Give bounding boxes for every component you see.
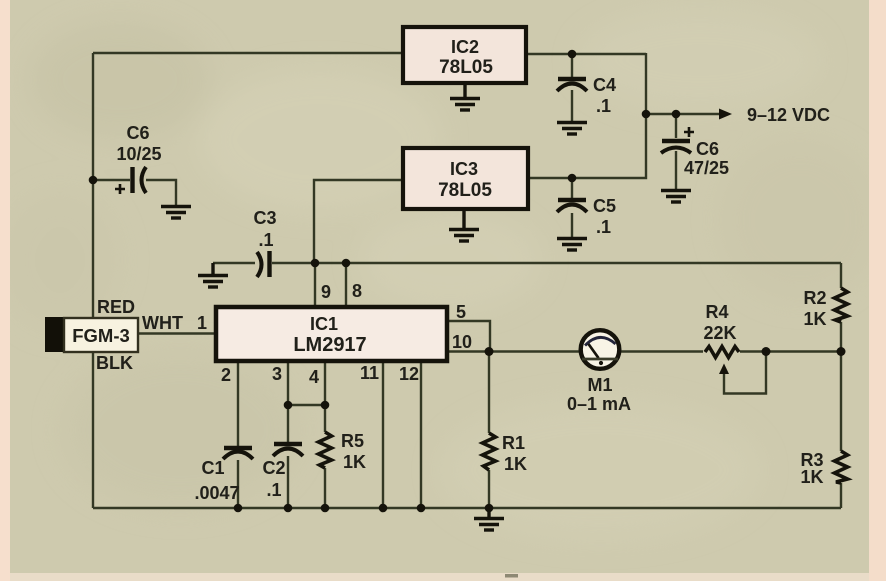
wire pin11 column <box>382 363 384 508</box>
capacitor C3 <box>257 251 270 277</box>
IC1 LM2917 box <box>216 307 447 361</box>
node C6b tap <box>672 110 681 119</box>
svg-text:C3: C3 <box>253 208 276 228</box>
regulator IC3 box <box>403 148 528 209</box>
svg-text:R5: R5 <box>341 431 364 451</box>
svg-text:IC2: IC2 <box>451 37 479 57</box>
svg-text:.1: .1 <box>266 480 281 500</box>
wire pin10 to meter <box>449 350 581 352</box>
svg-text:C5: C5 <box>593 196 616 216</box>
svg-text:C1: C1 <box>201 458 224 478</box>
ground under C5 <box>557 239 587 251</box>
svg-text:78L05: 78L05 <box>439 57 493 78</box>
stray mark bottom <box>505 574 518 578</box>
svg-text:11: 11 <box>360 363 379 383</box>
capacitor C6 47/25 <box>661 127 694 153</box>
node C4 tap <box>568 50 577 59</box>
svg-text:12: 12 <box>399 364 419 384</box>
wire pin12 column <box>420 363 422 508</box>
svg-text:10: 10 <box>452 332 472 352</box>
wire pin8 <box>345 263 347 305</box>
wire pin4 column <box>324 363 326 508</box>
wire meter to R4 <box>620 350 703 352</box>
wire top rail <box>93 52 401 54</box>
capacitor C4 <box>557 79 587 91</box>
svg-text:FGM-3: FGM-3 <box>72 325 130 346</box>
svg-text:4: 4 <box>309 367 319 387</box>
capacitor C6 10/25 <box>115 167 146 194</box>
svg-text:RED: RED <box>97 297 135 317</box>
svg-text:0–1 mA: 0–1 mA <box>567 394 631 414</box>
wire C6a stems <box>93 180 176 205</box>
ground at C3 left <box>198 263 228 287</box>
node rail R1 <box>485 504 494 513</box>
ground under IC2 <box>450 85 480 110</box>
capacitor C1 <box>223 448 253 459</box>
svg-text:LM2917: LM2917 <box>293 334 366 356</box>
regulator IC2 box <box>403 27 526 83</box>
svg-text:C2: C2 <box>262 458 285 478</box>
svg-text:5: 5 <box>456 302 466 322</box>
wire right rail <box>840 263 842 508</box>
svg-text:IC3: IC3 <box>450 159 478 179</box>
svg-text:C4: C4 <box>593 75 616 95</box>
svg-text:22K: 22K <box>703 323 736 343</box>
node rail12 <box>417 504 426 513</box>
wire bottom rail <box>93 507 841 509</box>
arrow 9-12 VDC <box>719 109 732 120</box>
node C5 tap <box>568 174 577 183</box>
wire pin5 <box>449 321 490 352</box>
sensor FGM-3 <box>45 317 138 352</box>
svg-text:9: 9 <box>321 282 331 302</box>
wire R1 column <box>488 352 490 509</box>
resistor R5 <box>319 432 332 468</box>
svg-text:2: 2 <box>221 365 231 385</box>
wire pin9 <box>314 263 316 305</box>
ground at bottom rail <box>474 508 504 530</box>
meter M1 <box>581 330 620 369</box>
svg-text:R4: R4 <box>705 302 728 322</box>
svg-text:1K: 1K <box>343 452 366 472</box>
wire left rail <box>92 53 94 508</box>
node pin9 <box>311 259 320 268</box>
node rail3 <box>284 504 293 513</box>
svg-text:.1: .1 <box>258 230 273 250</box>
wire R4 to right rail <box>740 350 841 352</box>
svg-text:BLK: BLK <box>96 353 133 373</box>
svg-text:C6: C6 <box>696 139 719 159</box>
node rail11 <box>379 504 388 513</box>
node R2-R3 <box>837 347 846 356</box>
ground under C6 47/25 <box>661 191 691 203</box>
svg-text:47/25: 47/25 <box>684 158 729 178</box>
wire 9-12 VDC tap <box>646 113 720 115</box>
svg-text:.1: .1 <box>596 96 611 116</box>
capacitor C5 <box>557 200 587 212</box>
wire C6b stems <box>675 114 677 189</box>
node bridge3 <box>284 401 293 410</box>
svg-text:WHT: WHT <box>142 313 183 333</box>
wire C5 stems <box>571 178 573 237</box>
svg-text:R1: R1 <box>502 433 525 453</box>
svg-text:8: 8 <box>352 281 362 301</box>
wire bridge pins 3-4 <box>288 404 325 406</box>
node C6a tap <box>89 176 98 185</box>
wire WHT pin1 <box>138 332 214 334</box>
svg-text:C6: C6 <box>126 123 149 143</box>
node pin5-10 <box>485 347 494 356</box>
svg-text:R2: R2 <box>803 288 826 308</box>
node bridge4 <box>321 401 330 410</box>
node pin8 <box>342 259 351 268</box>
wire pin2 column <box>237 363 239 508</box>
ground under C6 10/25 <box>161 207 191 219</box>
ground under C4 <box>557 123 587 135</box>
resistor R3 <box>835 451 848 483</box>
wire C4 stems <box>571 54 573 121</box>
svg-text:1K: 1K <box>504 454 527 474</box>
wire IC2 out to corner down to IC3 out <box>528 53 646 178</box>
svg-text:10/25: 10/25 <box>116 144 161 164</box>
svg-text:1K: 1K <box>803 309 826 329</box>
svg-text:1: 1 <box>197 313 207 333</box>
node VDC corner <box>642 110 651 119</box>
svg-text:M1: M1 <box>587 375 612 395</box>
ground under IC3 <box>449 211 479 241</box>
svg-text:3: 3 <box>272 364 282 384</box>
resistor R1 <box>483 433 496 470</box>
svg-text:9–12 VDC: 9–12 VDC <box>747 105 830 125</box>
svg-text:.0047: .0047 <box>194 483 239 503</box>
potentiometer R4 <box>705 347 739 375</box>
resistor R2 <box>835 288 848 322</box>
svg-text:1K: 1K <box>800 467 823 487</box>
capacitor C2 <box>273 444 303 456</box>
svg-text:78L05: 78L05 <box>438 180 492 201</box>
svg-text:IC1: IC1 <box>310 314 338 334</box>
node wiper <box>762 347 771 356</box>
wire pin3 column <box>287 363 289 508</box>
wire IC3 left to node down <box>314 180 401 263</box>
wire mid rail y263 <box>213 262 841 264</box>
node rail2 <box>234 504 243 513</box>
svg-text:.1: .1 <box>596 217 611 237</box>
node rail4 <box>321 504 330 513</box>
wire pot wiper return <box>724 352 766 394</box>
